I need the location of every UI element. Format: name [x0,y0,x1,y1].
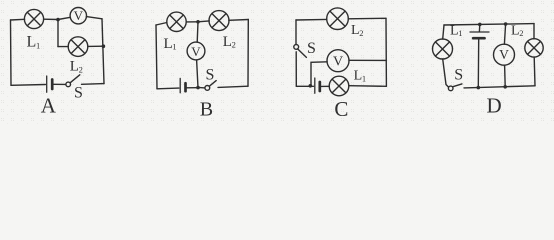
wire [186,21,198,23]
wire [187,87,196,89]
wire A branch down [57,20,59,47]
battery (D) long plate [470,31,489,33]
voltmeter V (D) [494,44,515,65]
node (junction dot B top) [196,20,200,24]
wire B voltmeter branch lower [197,60,198,88]
wire B voltmeter branch upper [196,22,199,43]
battery (B) short thick plate [184,83,187,91]
svg-text:C: C [334,97,348,121]
svg-text:V: V [499,47,509,62]
wire C left vertical lower [295,52,297,87]
lamp L1 (B) [167,12,186,31]
svg-text:S: S [206,66,215,83]
node (junction dot B bottom) [196,86,200,90]
svg-text:S: S [454,66,463,83]
wire D right branch upper [533,24,535,39]
wire B left vertical [156,25,157,89]
node (junction dot D voltmeter top) [504,22,508,26]
wire D left branch lower [443,59,449,87]
wire C right vertical [385,18,387,86]
wire [82,83,105,86]
wire B bottom-left [157,87,179,90]
wire D voltmeter lower [504,65,507,87]
switch S (A) pivot [66,82,71,87]
wire D battery stub [478,24,480,31]
switch S (B) pivot [205,86,210,91]
wire D battery lower [477,40,479,88]
svg-text:V: V [74,8,84,23]
lamp L2 (A) [68,37,88,57]
switch S (B) lever [210,81,217,87]
voltmeter V (B) [187,42,205,60]
wire C top-left [296,18,327,21]
wire C left vertical upper [295,20,297,44]
wire to voltmeter [58,17,70,19]
wire C bottom-left [296,85,313,87]
wire A top-left [11,18,25,21]
svg-text:V: V [333,55,343,70]
switch S (D) lever [453,84,462,87]
svg-text:B: B [200,98,213,120]
voltmeter V (C) [327,50,349,72]
svg-text:A: A [41,93,57,117]
svg-text:D: D [487,93,502,117]
node (junction dot A top) [56,18,60,22]
wire B top-left [156,23,167,26]
switch S (C) lever [298,49,307,58]
wire D top [444,24,534,25]
svg-text:S: S [74,84,83,101]
wire [54,83,66,85]
wire [349,59,386,61]
wire D voltmeter upper [504,24,505,44]
switch S (A) lever [70,75,79,83]
lamp L2 (C) [327,8,349,30]
battery (D) short thick plate [473,37,484,40]
wire D left branch upper [443,25,444,39]
wire A right vertical [102,19,104,84]
svg-text:V: V [191,44,201,59]
node (junction dot D battery top) [478,23,482,27]
lamp L1 (D) [433,39,453,59]
wire A left vertical [10,20,13,85]
lamp L2 (B) [209,11,229,31]
battery (C) short thick plate [318,82,321,91]
switch S (C) pivot [294,45,299,50]
node (junction dot D battery bottom) [477,86,481,90]
battery (A) long plate [46,76,48,92]
wire B right vertical [247,20,249,87]
wire [229,19,249,22]
wire [88,45,104,47]
svg-text:S: S [307,40,316,57]
wire [200,87,205,89]
battery (A) short thick plate [51,80,54,90]
wire [218,86,248,87]
paper background [0,0,554,125]
wire [321,85,329,87]
battery (C) long plate [314,78,316,93]
lamp L1 (A) [24,9,43,28]
lamp L1 (C) [329,76,349,96]
node (junction dot A right) [102,44,106,48]
wire [198,20,209,23]
wire [58,46,68,48]
wire [349,85,387,88]
wire A bottom-left [11,84,45,87]
wire [348,17,386,20]
node (junction dot C bottom) [309,84,313,88]
wire [86,17,102,19]
wire D right branch lower [533,57,536,86]
wire [44,18,58,20]
battery (B) long plate [179,78,181,92]
switch S (D) pivot [448,86,453,91]
wire C voltmeter left corner [311,62,327,86]
node (junction dot D voltmeter bottom) [503,85,507,89]
voltmeter V (A) [70,8,86,24]
wire D bottom [464,86,535,88]
lamp L2 (D) [525,39,543,57]
